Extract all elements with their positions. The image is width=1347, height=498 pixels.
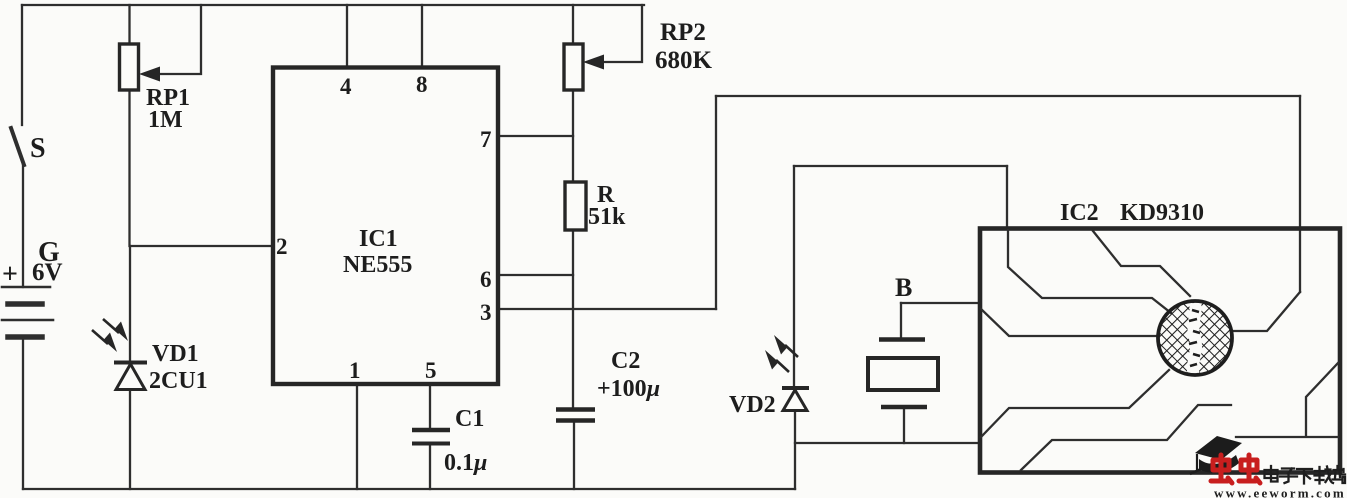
IC2 internal trace bottom right run — [1236, 436, 1338, 438]
wire top supply rail — [22, 4, 644, 6]
potentiometer RP1 body — [120, 44, 139, 90]
battery G plate2 short — [8, 301, 42, 307]
wire RP2 top lead — [572, 5, 574, 44]
battery G plate4 short — [8, 334, 42, 340]
watermark graduation cap logo — [1190, 436, 1242, 474]
svg-text:+100μ: +100μ — [597, 376, 660, 402]
svg-text:2CU1: 2CU1 — [149, 368, 208, 394]
wire node A to pin 2 — [130, 245, 272, 247]
battery G plate3 long — [2, 319, 53, 322]
svg-text:51k: 51k — [588, 204, 626, 230]
photodiode VD1 cathode bar — [114, 361, 147, 365]
IC2 internal trace from top edge — [1093, 231, 1190, 296]
svg-text:S: S — [30, 133, 46, 164]
buzzer B coil box — [868, 358, 938, 390]
svg-text:6: 6 — [480, 267, 492, 292]
wire B top lead — [900, 303, 902, 339]
IC1 NE555 box — [273, 68, 498, 385]
wire pin 8 lead — [421, 5, 423, 66]
watermark character chong 1 (red) — [1211, 455, 1232, 483]
IC2 internal trace from B input — [981, 309, 1158, 336]
capacitor C1 plates — [412, 428, 450, 433]
wire RP1 wiper from top rail — [158, 5, 201, 74]
wire B to IC2 — [901, 302, 979, 304]
svg-text:www.eeworm.com: www.eeworm.com — [1214, 486, 1346, 498]
switch S blade — [11, 128, 24, 165]
photodiode VD1 triangle — [116, 364, 145, 390]
buzzer B top plate — [879, 337, 925, 342]
svg-text:2: 2 — [276, 234, 288, 259]
svg-text:5: 5 — [425, 358, 437, 383]
LED VD2 cathode bar — [782, 386, 809, 390]
svg-text:IC2: IC2 — [1060, 200, 1099, 226]
IC2 internal trace from bottom-left input — [981, 370, 1169, 437]
wire pin 6 — [499, 274, 573, 276]
svg-text:VD2: VD2 — [729, 392, 776, 418]
capacitor C2 plates — [556, 407, 595, 412]
IC2 internal trace right side — [1306, 363, 1338, 436]
svg-text:0.1μ: 0.1μ — [444, 450, 487, 476]
svg-text:8: 8 — [416, 72, 428, 97]
wire VD1 to bottom rail — [129, 390, 131, 489]
wire C1 to bottom rail — [429, 445, 431, 489]
LED VD2 triangle — [783, 390, 807, 411]
svg-text:KD9310: KD9310 — [1120, 200, 1204, 226]
IC2 internal trace from top pin lead — [1008, 230, 1171, 313]
svg-text:C1: C1 — [455, 406, 484, 432]
svg-text:IC1: IC1 — [359, 226, 398, 252]
potentiometer RP2 body — [564, 44, 583, 90]
LED VD2 light arrow 1 — [776, 360, 789, 372]
LED VD2 light arrow 2 — [785, 345, 798, 357]
svg-text:7: 7 — [480, 127, 492, 152]
wire pin 4 lead — [346, 5, 348, 66]
svg-text:1: 1 — [349, 358, 361, 383]
wire pin 3 out — [499, 308, 716, 310]
watermark text dian-zi-xia-zai-zhan (black strokes) — [1265, 466, 1346, 484]
svg-text:VD1: VD1 — [152, 341, 199, 367]
wire RP1 top lead — [128, 5, 130, 44]
svg-text:+: + — [2, 259, 18, 290]
IC2 die chip circle — [1158, 300, 1232, 377]
svg-text:C2: C2 — [611, 348, 640, 374]
wire VD2 to IC2 bottom run — [795, 442, 979, 444]
wire C2 to bottom rail — [573, 421, 575, 489]
IC2 internal trace from pin 3 drop to die — [1234, 292, 1300, 331]
photodiode VD1 light arrow 1 — [92, 330, 108, 344]
potentiometer RP1 wiper arrowhead — [139, 67, 160, 82]
wire left rail upper (to switch) — [21, 5, 23, 125]
resistor R body — [565, 182, 586, 230]
wire pin 7 — [499, 135, 573, 137]
svg-text:NE555: NE555 — [343, 252, 412, 278]
wire pin 3 drop into IC2 — [1299, 96, 1301, 292]
svg-text:1M: 1M — [148, 107, 183, 133]
wire RP2 wiper from top rail — [601, 5, 642, 62]
buzzer B bottom plate — [881, 405, 927, 410]
svg-text:RP2: RP2 — [660, 19, 706, 46]
svg-text:6V: 6V — [32, 259, 63, 286]
wire RP1 bottom lead to node A — [128, 90, 130, 246]
wire battery to bottom rail — [22, 337, 24, 489]
wire VD2 anode to bottom — [794, 411, 796, 489]
svg-text:4: 4 — [340, 74, 352, 99]
wire VD2 cathode lead — [793, 166, 795, 386]
IC2 internal trace along bottom — [1021, 405, 1231, 470]
wire RP2 bottom to pin 7 junction — [572, 90, 574, 182]
battery G plate1 long — [2, 286, 50, 289]
wire switch to battery — [22, 165, 24, 287]
wire R to C2 through pin 6 node — [572, 230, 574, 409]
potentiometer RP2 wiper arrowhead — [583, 55, 604, 70]
svg-text:3: 3 — [480, 300, 492, 325]
svg-text:B: B — [895, 273, 912, 302]
wire pin 1 to bottom rail — [356, 384, 358, 489]
wire IC2 pin lead from top run — [1006, 166, 1008, 228]
svg-text:680K: 680K — [655, 47, 713, 74]
IC2 KD9310 box — [980, 229, 1340, 473]
wire pin 5 to C1 — [429, 384, 431, 428]
wire pin 3 riser — [715, 96, 717, 309]
wire VD2 branch top run — [794, 165, 1007, 167]
wire bottom ground rail — [23, 488, 795, 490]
photodiode VD1 light arrow 2 — [103, 319, 119, 333]
wire B bottom lead — [903, 407, 905, 443]
watermark character chong 2 (red) — [1239, 455, 1260, 483]
wire node A to VD1 — [129, 246, 131, 362]
wire pin 3 top run to IC2 — [716, 95, 1300, 97]
